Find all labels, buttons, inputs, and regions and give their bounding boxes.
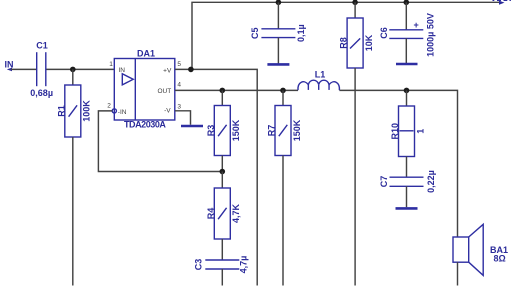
svg-text:R7: R7: [267, 125, 277, 137]
svg-text:1: 1: [415, 129, 425, 134]
wire: R8 bottom lead (crosses OUT, no junction): [354, 68, 356, 286]
svg-text:C5: C5: [250, 27, 260, 39]
wire: R3 bottom lead: [221, 156, 223, 172]
svg-text:5: 5: [177, 61, 181, 68]
junction: R3/R4/pin2 node: [220, 169, 226, 175]
input port IN: [5, 60, 14, 72]
svg-text:DA1: DA1: [137, 49, 155, 59]
svg-text:1000µ 50V: 1000µ 50V: [425, 13, 435, 57]
wire: top +V rail: [192, 2, 501, 69]
junction: R3 top: [220, 88, 226, 94]
svg-text:OUT: OUT: [157, 88, 171, 95]
svg-text:0,68µ: 0,68µ: [30, 88, 53, 98]
capacitor C5: [250, 24, 306, 42]
wire: pin 3 to ground: [175, 111, 191, 125]
wire: IN to C1: [11, 68, 36, 70]
wire: C5 top lead: [277, 2, 279, 29]
junction: C6 top: [404, 0, 410, 5]
resistor R10: [390, 106, 425, 157]
svg-text:8Ω: 8Ω: [494, 254, 506, 264]
ground (C5): [267, 63, 289, 66]
wire: R3 top lead: [221, 90, 223, 105]
svg-text:R8: R8: [339, 37, 349, 49]
svg-text:10K: 10K: [364, 34, 374, 51]
wire: R10 bottom lead: [406, 157, 408, 178]
wire: R10 top lead: [406, 90, 408, 106]
svg-text:C7: C7: [379, 176, 389, 188]
svg-text:C6: C6: [379, 27, 389, 39]
pin 4 number: [177, 82, 181, 89]
resistor R7: [267, 106, 302, 156]
wire: pin 5 +V to top rail branch: [175, 69, 257, 285]
svg-text:100K: 100K: [82, 100, 92, 122]
wire: R1 top lead: [72, 69, 74, 85]
wire: R4 top lead: [221, 172, 223, 189]
wire: C3 bottom lead: [221, 269, 223, 286]
junction: C5 top: [276, 0, 282, 5]
resistor R3: [206, 106, 241, 156]
svg-text:-V: -V: [164, 107, 171, 114]
junction: R8 top rail: [352, 0, 358, 5]
wire: R7 top lead: [282, 90, 284, 105]
svg-text:-IN: -IN: [118, 109, 127, 116]
inductor L1: [298, 70, 339, 91]
junction: R10 top: [404, 88, 410, 94]
capacitor C7: [379, 170, 436, 193]
junction: pin 5 / top rail: [188, 67, 194, 73]
svg-text:4,7K: 4,7K: [231, 203, 241, 223]
wire: R8 top lead: [354, 2, 356, 18]
pin 5 number: [177, 61, 181, 68]
svg-text:1: 1: [109, 61, 113, 68]
svg-text:4: 4: [177, 82, 181, 89]
wire: pin 2 feedback (left and down to R3/R4 node): [98, 111, 222, 172]
pin 2 inversion bubble: [112, 109, 116, 113]
junction: R7 top: [280, 88, 286, 94]
svg-text:C3: C3: [194, 259, 204, 271]
svg-text:+: +: [414, 20, 419, 30]
svg-text:4,7µ: 4,7µ: [239, 256, 249, 274]
svg-text:0,22µ: 0,22µ: [426, 170, 436, 193]
wire: C6 bottom lead: [405, 38, 407, 63]
capacitor C3: [194, 256, 249, 274]
op-amp DA1: [114, 49, 175, 130]
wire: C7 bottom lead: [406, 186, 408, 207]
junction: R1 top: [70, 67, 76, 73]
wire: R1 bottom lead: [72, 137, 74, 286]
svg-text:+V: +V: [163, 67, 172, 74]
svg-text:L1: L1: [315, 70, 326, 80]
wire: R4 bottom lead: [221, 239, 223, 260]
wire: C6 top lead: [405, 2, 407, 30]
resistor R8: [339, 18, 374, 68]
svg-text:3: 3: [177, 103, 181, 110]
svg-text:150K: 150K: [292, 119, 302, 141]
pin 1 number: [109, 61, 113, 68]
ground (C7): [396, 207, 418, 210]
resistor R1: [56, 85, 91, 137]
svg-text:150K: 150K: [231, 119, 241, 141]
resistor R4: [206, 188, 241, 239]
wire: C5 bottom lead: [277, 38, 279, 64]
svg-text:TDA2030A: TDA2030A: [124, 120, 166, 130]
power arrow (top right): [493, 0, 511, 5]
wire: R7 bottom lead: [282, 156, 284, 286]
capacitor C6 (polarized): [379, 13, 436, 57]
ground (C6): [396, 63, 418, 66]
svg-text:R3: R3: [206, 125, 216, 137]
wire: pin 4 OUT to speaker corner: [175, 89, 298, 91]
svg-text:R4: R4: [206, 208, 216, 220]
svg-text:0,1µ: 0,1µ: [296, 24, 306, 42]
wire: speaker bottom lead: [457, 262, 459, 285]
svg-text:IN: IN: [5, 60, 14, 70]
speaker BA1: [453, 224, 508, 275]
svg-text:2: 2: [107, 103, 111, 110]
wire: C1 to op-amp pin 1: [47, 68, 115, 70]
capacitor C1: [30, 41, 53, 99]
svg-text:R10: R10: [390, 123, 400, 140]
svg-text:C1: C1: [36, 41, 48, 51]
pin 3 number: [177, 103, 181, 110]
pin 2 number: [107, 103, 111, 110]
svg-text:R1: R1: [56, 105, 66, 117]
ground (pin 3): [181, 125, 203, 128]
